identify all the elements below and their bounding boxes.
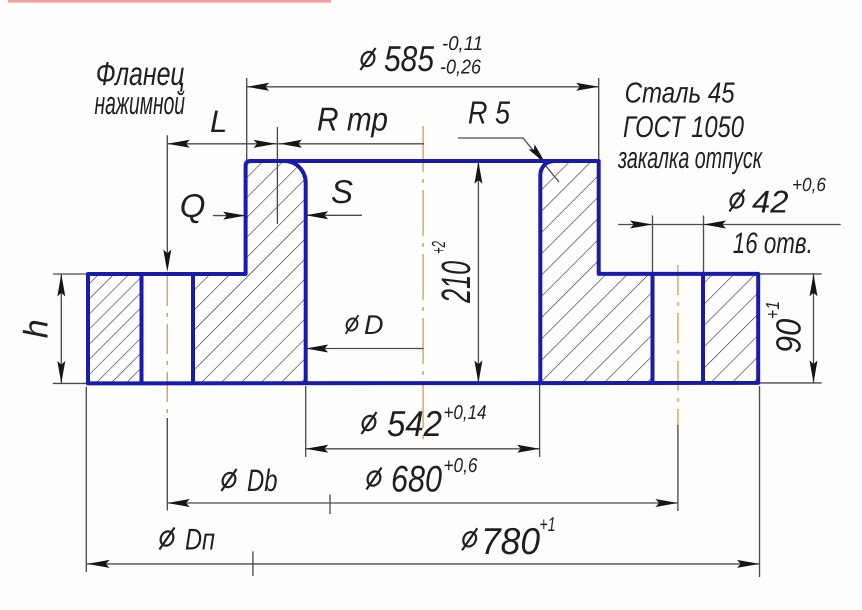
right bolt hole walls bbox=[651, 274, 655, 383]
svg-text:542: 542 bbox=[387, 403, 442, 444]
dim leader diaD bbox=[306, 348, 424, 350]
hatch right outer ring bbox=[703, 274, 758, 383]
svg-text:S: S bbox=[331, 173, 353, 210]
svg-text:16 отв.: 16 отв. bbox=[733, 227, 813, 260]
extension line right bolt centerline lower bbox=[677, 425, 679, 511]
extension line Dp left below bbox=[85, 387, 87, 572]
hatch left inner ring + hub left wall bbox=[193, 161, 306, 383]
extension line h top bbox=[53, 273, 88, 275]
label dia 780 bbox=[461, 528, 479, 550]
label dia 542 bbox=[360, 412, 378, 434]
svg-text:-0,26: -0,26 bbox=[440, 57, 482, 79]
label dia D bbox=[344, 315, 359, 334]
dim leader S bbox=[306, 214, 362, 216]
dim line dia42 bbox=[618, 224, 841, 226]
part outline outer bbox=[88, 161, 758, 383]
svg-text:+1: +1 bbox=[540, 514, 556, 536]
hatch left outer ring bbox=[88, 274, 142, 383]
extension line R-trap tangent bbox=[276, 127, 278, 224]
dim line 780/Dp bbox=[87, 563, 759, 565]
svg-text:Dп: Dп bbox=[185, 524, 215, 557]
svg-text:нажимной: нажимной bbox=[95, 85, 186, 121]
dim line 542 bbox=[306, 448, 540, 450]
svg-text:R 5: R 5 bbox=[468, 95, 510, 131]
dim line h vertical bbox=[60, 274, 62, 383]
svg-text:680: 680 bbox=[391, 459, 442, 500]
label dia Db bbox=[220, 469, 238, 491]
svg-text:+1: +1 bbox=[763, 301, 784, 319]
leader Flanets vertical bbox=[166, 135, 168, 268]
hatch right hub wall + flange bbox=[540, 161, 652, 383]
extension line dia42 right bbox=[703, 216, 705, 274]
label dia 585 with tolerances bbox=[359, 48, 377, 70]
svg-text:+0,14: +0,14 bbox=[444, 402, 487, 424]
label dia 42 bbox=[728, 190, 746, 212]
part axis centerline bbox=[422, 126, 424, 443]
svg-text:D: D bbox=[364, 310, 384, 340]
svg-text:R тр: R тр bbox=[317, 101, 388, 138]
centerline right bolt hole bbox=[677, 265, 679, 425]
dim line 210 vertical bbox=[477, 161, 479, 383]
leader R5 bbox=[458, 138, 559, 182]
svg-text:закалка отпуск: закалка отпуск bbox=[617, 142, 763, 175]
svg-text:Сталь 45: Сталь 45 bbox=[625, 78, 736, 110]
svg-text:780: 780 bbox=[481, 520, 540, 562]
dim line 680/Db bbox=[167, 502, 678, 504]
extension line 542 right bbox=[539, 385, 541, 457]
dim line dia585 bbox=[247, 86, 599, 88]
extension line 542 left bbox=[305, 386, 307, 457]
label dia 680 bbox=[365, 468, 383, 490]
dim leader Q bbox=[213, 215, 246, 217]
extension line 90 top bbox=[758, 273, 821, 275]
dim line L and R-trap bbox=[167, 143, 424, 145]
svg-text:42: 42 bbox=[752, 184, 789, 220]
extension line dia585 left bbox=[246, 78, 248, 160]
left bolt hole walls bbox=[140, 274, 144, 383]
extension line base left bbox=[53, 382, 88, 384]
svg-text:ГОСТ 1050: ГОСТ 1050 bbox=[623, 111, 744, 144]
svg-text:Db: Db bbox=[247, 463, 278, 498]
centerline left bolt hole bbox=[166, 276, 168, 418]
bore left wall with R-trap arc bbox=[285, 161, 306, 383]
svg-text:L: L bbox=[210, 104, 227, 139]
dim line 90 vertical bbox=[813, 274, 815, 383]
tick on 680 line bbox=[329, 495, 331, 515]
svg-text:+2: +2 bbox=[429, 241, 450, 254]
svg-text:210: 210 bbox=[433, 261, 479, 304]
extension line 780 right below bbox=[759, 386, 761, 577]
extension line dia585 right bbox=[598, 78, 600, 161]
svg-text:+0,6: +0,6 bbox=[444, 455, 479, 477]
svg-text:Q: Q bbox=[180, 187, 206, 224]
svg-text:585: 585 bbox=[384, 38, 435, 79]
label dia Dp bbox=[158, 528, 176, 550]
extension line dia42 left bbox=[652, 216, 654, 274]
tick on Dp line bbox=[252, 551, 254, 576]
extension line left bolt centerline lower bbox=[166, 418, 168, 511]
svg-text:90: 90 bbox=[770, 318, 809, 353]
pink artifact line top bbox=[8, 0, 331, 3]
svg-text:-0,11: -0,11 bbox=[442, 33, 483, 55]
extension line 90 bottom bbox=[758, 382, 821, 384]
svg-text:+0,6: +0,6 bbox=[792, 175, 826, 196]
bore right wall with R5 arc bbox=[540, 161, 553, 383]
svg-text:h: h bbox=[18, 319, 56, 338]
